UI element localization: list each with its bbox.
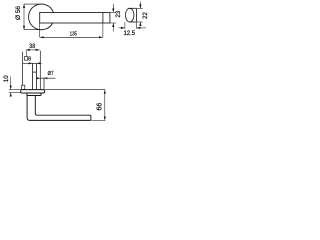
lever end-cap seam	[102, 13, 104, 24]
dim Ø56 extension bottom	[24, 29, 43, 31]
svg-text:8: 8	[28, 56, 31, 62]
dim 135 right extension	[102, 23, 104, 37]
dim 10 extension bottom	[9, 92, 21, 94]
svg-text:Ø 56: Ø 56	[15, 6, 22, 20]
svg-text:12.5: 12.5	[123, 31, 135, 37]
dim 38 left extension	[25, 51, 27, 57]
spindle joint line	[33, 71, 37, 73]
rose collar	[27, 93, 41, 96]
svg-text:66: 66	[97, 103, 104, 111]
rose plate (plan view)	[21, 90, 45, 93]
dim 66 extension top	[45, 89, 105, 91]
dim Ø56 line with arrows	[23, 4, 25, 30]
svg-text:Ø7: Ø7	[48, 71, 54, 77]
svg-text:38: 38	[29, 44, 35, 50]
dim 23 line with outside arrows	[112, 4, 114, 32]
grip section ellipse (side view)	[125, 8, 134, 22]
dim 12.5 extensions	[124, 22, 126, 29]
dim 22 line with outside arrows	[139, 2, 141, 26]
dim Ø7 line with outside arrows	[37, 77, 56, 79]
dim 66 extension bottom	[92, 119, 106, 121]
dim 8 line with outside arrows	[23, 62, 42, 64]
dim 10 extension top	[9, 89, 21, 91]
left fixing screw	[22, 52, 24, 85]
dim 66 line with arrows	[104, 90, 106, 121]
dim 38 right extension / screw axis	[39, 51, 41, 90]
dim Ø56 extension top	[24, 3, 43, 5]
label square-8 symbol	[25, 57, 28, 61]
dim 23 extensions	[110, 12, 116, 14]
dim 135 left extension / bar left edge	[39, 23, 41, 37]
spindle right line	[35, 63, 37, 89]
dim 22 extensions	[137, 7, 143, 9]
grip section body top	[130, 7, 137, 9]
dim 38 line with outward arrows	[26, 49, 40, 51]
lever bar (front view)	[40, 13, 110, 24]
rose circle (front view)	[29, 4, 54, 30]
svg-text:23: 23	[116, 10, 122, 17]
dim 135 line with arrows	[40, 36, 103, 38]
dim 12.5 line with outside arrows	[119, 27, 146, 29]
grip section body bottom	[130, 21, 137, 23]
dim 10 top line with outside arrow	[10, 77, 12, 97]
svg-text:10: 10	[3, 75, 10, 82]
spindle left line	[32, 63, 34, 89]
svg-text:135: 135	[70, 31, 78, 38]
grip section body right	[136, 8, 138, 22]
left screw head	[22, 85, 25, 89]
svg-text:22: 22	[143, 12, 149, 19]
screw Ø7 right line	[43, 77, 45, 89]
handle neck and grip (plan view)	[27, 96, 91, 121]
